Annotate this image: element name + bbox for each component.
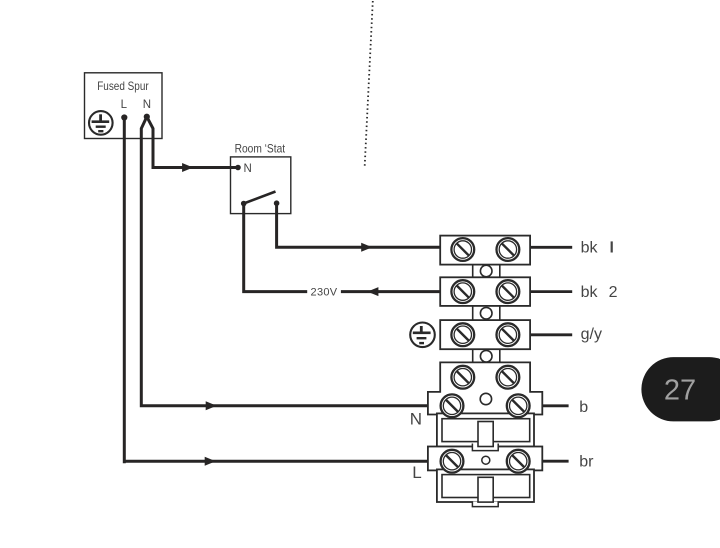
wire stub g/y	[530, 333, 572, 336]
switched live wire to bk1	[277, 203, 441, 247]
N fuse holder outer	[437, 413, 534, 446]
svg-text:L: L	[412, 463, 421, 482]
wire N left fork to N terminal	[141, 117, 428, 406]
connector hole 1	[480, 265, 492, 277]
L fuse clip	[478, 477, 493, 502]
svg-text:27: 27	[664, 375, 696, 407]
earth symbol (terminal block)	[410, 323, 435, 348]
svg-text:N: N	[244, 163, 252, 175]
wire stub bk2	[530, 290, 572, 293]
terminal block segment 1	[440, 236, 530, 265]
svg-text:g/y: g/y	[581, 326, 602, 343]
screw terminal seg2 right	[497, 280, 520, 303]
svg-text:br: br	[579, 454, 594, 471]
svg-text:bk: bk	[581, 240, 599, 257]
screw terminal seg4 left	[451, 366, 474, 389]
neck between segment 1 and 2	[473, 265, 500, 278]
screw terminal seg3 left	[451, 323, 474, 346]
connector hole 3	[480, 350, 492, 362]
terminal block segment 4 + N row body	[428, 362, 542, 414]
dotted line	[365, 1, 373, 168]
connector hole 2	[480, 307, 492, 319]
fused spur box	[85, 73, 163, 139]
screw terminal seg4 right	[497, 366, 520, 389]
svg-text:Room ‘Stat: Room ‘Stat	[235, 141, 286, 155]
switch contact left	[241, 201, 247, 207]
arrow on 230V wire (left pointing)	[367, 287, 378, 296]
L fuse holder outer	[437, 469, 534, 502]
svg-text:230V: 230V	[311, 287, 338, 299]
screw terminal seg2 left	[451, 280, 474, 303]
svg-text:N: N	[410, 410, 422, 429]
neck between segment 2 and 3	[473, 306, 500, 320]
svg-text:L: L	[121, 99, 128, 111]
svg-text:N: N	[143, 99, 151, 111]
screw terminal L row left	[441, 450, 464, 473]
230V return wire to bk2	[244, 204, 441, 292]
screw terminal N row right	[507, 394, 530, 417]
screw terminal seg1 left	[451, 238, 474, 261]
screw terminal N row left	[441, 394, 464, 417]
svg-text:2: 2	[609, 284, 618, 301]
arrow to room stat	[182, 163, 193, 172]
terminal dot N	[144, 114, 150, 120]
arrow on L wire	[205, 457, 216, 466]
room stat box	[231, 157, 291, 214]
L fuse holder inner	[442, 475, 530, 498]
svg-text:bk: bk	[581, 284, 599, 301]
arrow on N wire	[206, 401, 217, 410]
hole in L row	[482, 456, 490, 464]
svg-text:Fused Spur: Fused Spur	[97, 79, 149, 93]
N fuse clip	[478, 422, 493, 447]
room stat N dot	[235, 165, 241, 171]
wire stub br	[542, 460, 568, 463]
terminal block segment 3	[440, 320, 530, 349]
switch contact right	[274, 200, 280, 206]
wire L from fused spur to L terminal	[124, 118, 428, 464]
wire stub b	[542, 404, 568, 407]
foot tab at bottom	[472, 502, 498, 507]
screw terminal seg1 right	[497, 238, 520, 261]
page number badge	[641, 357, 720, 421]
junction tab between N fuse and L row	[472, 444, 498, 451]
earth symbol (fused spur)	[89, 111, 113, 135]
hole in N row	[480, 393, 491, 404]
N fuse holder inner	[442, 419, 530, 442]
screw terminal L row right	[507, 450, 530, 473]
L terminal row	[428, 447, 542, 471]
screw terminal seg3 right	[497, 323, 520, 346]
terminal block segment 2	[440, 277, 530, 306]
terminal dot L	[121, 114, 127, 120]
switch blade	[244, 192, 276, 204]
neck between segment 3 and 4	[473, 349, 500, 362]
wire stub bk1	[530, 246, 572, 249]
arrow on bk1 wire	[361, 243, 372, 252]
svg-text:b: b	[579, 399, 588, 416]
wire N right fork to room stat	[147, 117, 238, 168]
